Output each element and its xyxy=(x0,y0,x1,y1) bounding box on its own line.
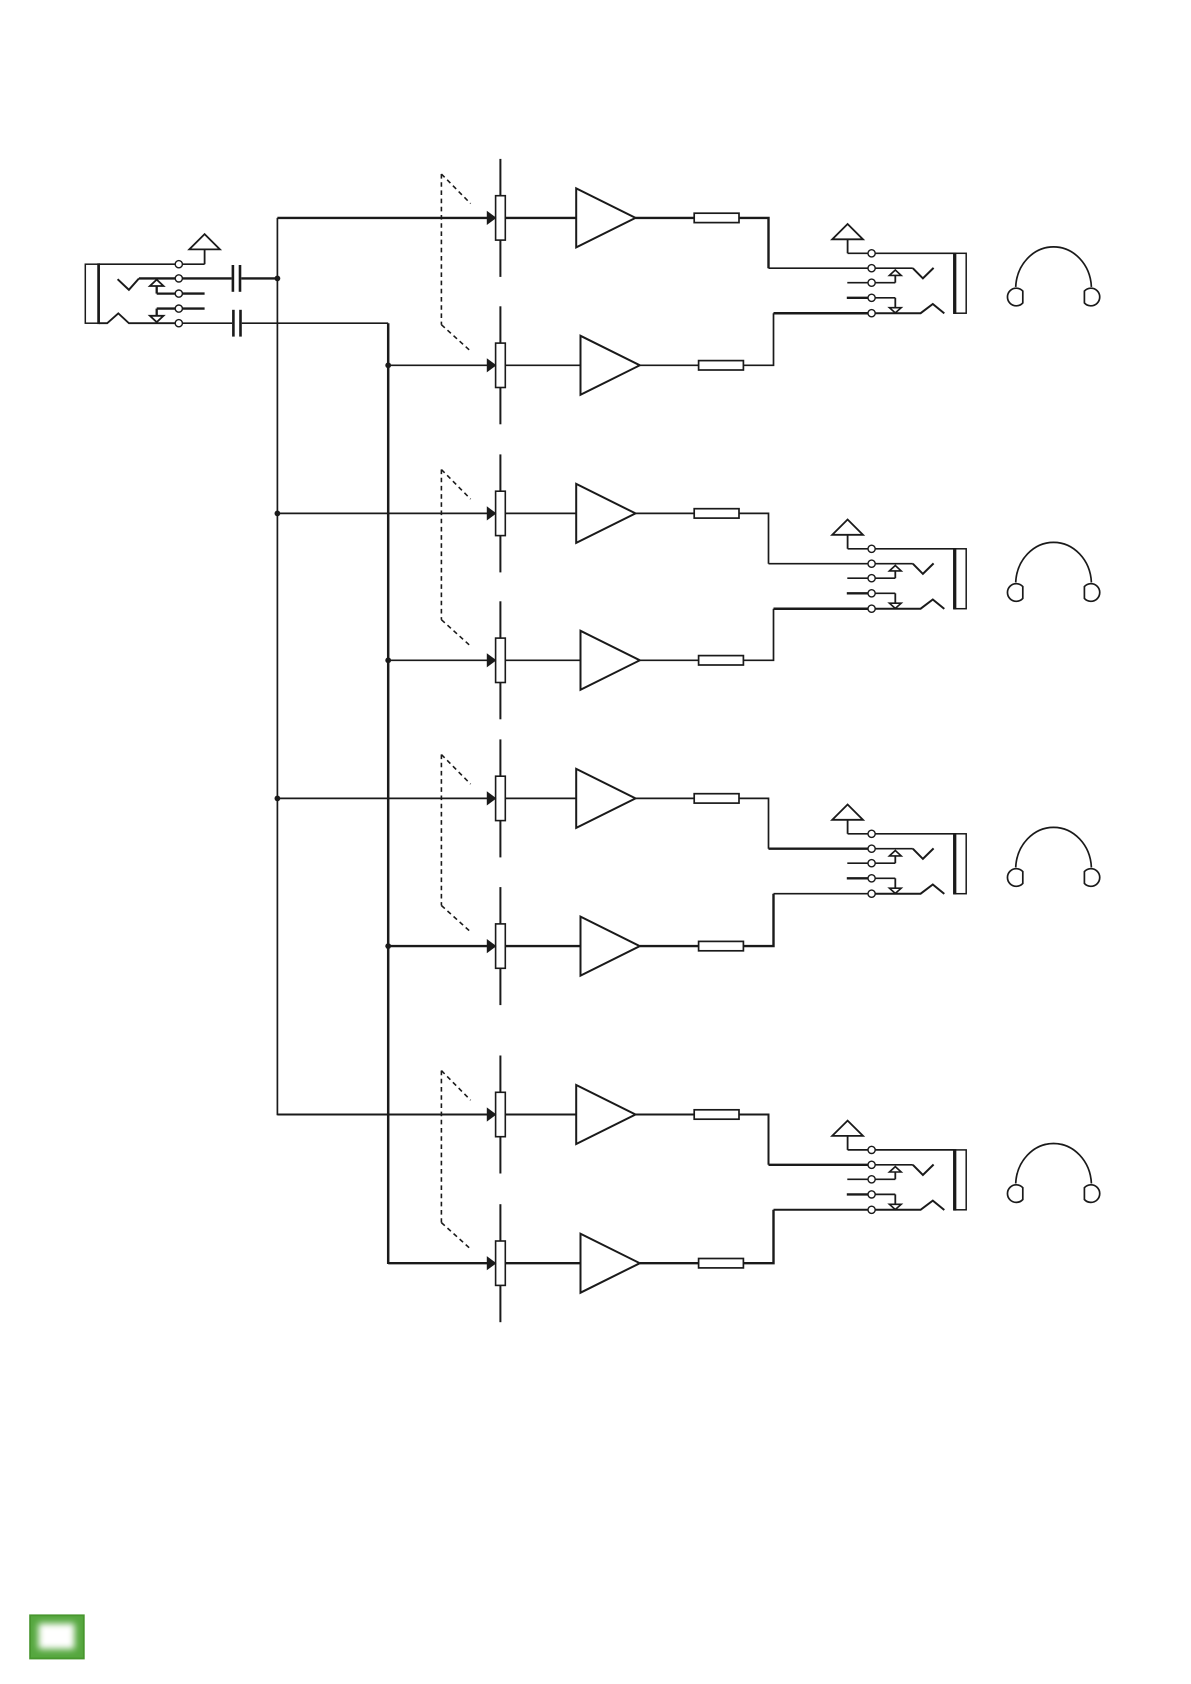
output jack J2 pin 4 (ring switch) xyxy=(868,294,875,301)
wire xyxy=(505,945,580,947)
gang link VR1 xyxy=(441,174,470,351)
output jack J2 tip contact xyxy=(913,268,934,279)
headphones CH2 xyxy=(1007,542,1099,601)
wire xyxy=(388,1262,487,1264)
potentiometer VR2b (R volume) xyxy=(487,601,505,719)
wire xyxy=(739,1115,769,1165)
wire xyxy=(505,797,576,799)
output jack J4 pin 4 (ring switch) xyxy=(868,875,875,882)
resistor R1b xyxy=(699,361,744,370)
potentiometer VR1a (L volume) xyxy=(487,159,505,277)
output jack J2 ring switch arrow xyxy=(875,298,901,313)
wire xyxy=(139,277,176,279)
resistor R2a xyxy=(694,509,739,518)
output jack J2 pin 5 (ring, R) xyxy=(868,310,875,317)
output jack J3 pin 5 (ring, R) xyxy=(868,605,875,612)
wire xyxy=(640,1262,699,1264)
node L input xyxy=(275,276,281,282)
wire xyxy=(739,513,769,563)
input jack J1 tip switch arrow xyxy=(150,280,164,294)
amplifier U2a xyxy=(576,484,635,543)
wire xyxy=(505,364,580,366)
wire xyxy=(277,512,487,514)
resistor R4a xyxy=(694,1110,739,1119)
wire xyxy=(847,1178,868,1180)
wire xyxy=(774,312,869,315)
wire xyxy=(774,1209,869,1211)
wire xyxy=(847,297,868,299)
wire xyxy=(848,252,869,254)
wire xyxy=(182,263,204,265)
output jack J3 pin 4 (ring switch) xyxy=(868,590,875,597)
wire xyxy=(875,1164,913,1166)
green navigation button xyxy=(30,1615,84,1658)
potentiometer VR4b (R volume) xyxy=(487,1204,505,1322)
output jack J5 ring switch arrow xyxy=(875,1194,901,1209)
output jack J5 pin 2 (tip, L) xyxy=(868,1161,875,1168)
output jack J3 body xyxy=(954,548,966,610)
wire xyxy=(636,797,695,799)
wire xyxy=(848,548,869,550)
resistor R3b xyxy=(699,941,744,950)
wire xyxy=(640,659,699,661)
output jack J4 pin 5 (ring, R) xyxy=(868,890,875,897)
potentiometer VR3a (L volume) xyxy=(487,739,505,857)
headphones CH3 xyxy=(1007,827,1099,886)
amplifier U1b xyxy=(581,336,640,395)
wire xyxy=(505,659,580,661)
wire xyxy=(769,1164,869,1166)
wire xyxy=(636,1114,695,1116)
wire xyxy=(769,848,869,850)
wire xyxy=(157,307,176,309)
resistor R3a xyxy=(694,794,739,803)
amplifier U2b xyxy=(581,631,640,690)
wire xyxy=(636,217,695,219)
potentiometer VR1b (R volume) xyxy=(487,306,505,424)
input jack J1 body xyxy=(85,263,99,324)
wire xyxy=(743,894,773,946)
wire xyxy=(743,1210,773,1263)
ground xyxy=(832,520,863,549)
output jack J5 pin 1 (sleeve) xyxy=(868,1146,875,1153)
amplifier U1a xyxy=(576,188,635,247)
wire xyxy=(847,592,868,594)
wire xyxy=(388,945,487,947)
wire xyxy=(182,322,232,324)
wire xyxy=(157,292,176,294)
output jack J3 pin 3 (tip switch) xyxy=(868,575,875,582)
input jack J1 ring switch arrow xyxy=(150,309,164,323)
wire xyxy=(241,277,277,279)
output jack J4 body xyxy=(954,833,966,895)
wire xyxy=(739,798,769,848)
wire xyxy=(743,313,773,365)
gang link VR4 xyxy=(441,1071,470,1249)
output jack J2 ring contact xyxy=(875,304,944,313)
resistor R4b xyxy=(699,1259,744,1268)
output jack J4 ring switch arrow xyxy=(875,878,901,893)
output jack J5 tip contact xyxy=(913,1165,934,1176)
wire xyxy=(277,217,487,219)
output jack J4 pin 2 (tip, L) xyxy=(868,845,875,852)
wire xyxy=(739,218,769,268)
node R ch2 tap xyxy=(385,657,391,663)
wire xyxy=(505,1262,580,1264)
output jack J2 pin 3 (tip switch) xyxy=(868,279,875,286)
node L ch2 tap xyxy=(275,511,281,517)
input jack J1 ring contact xyxy=(99,313,175,323)
output jack J2 body xyxy=(954,253,966,315)
wire R bus xyxy=(387,323,390,1264)
output jack J5 body xyxy=(954,1149,966,1211)
node L ch3 tap xyxy=(275,796,281,802)
output jack J5 pin 4 (ring switch) xyxy=(868,1191,875,1198)
wire xyxy=(640,364,699,366)
gang link VR2 xyxy=(441,470,470,647)
wire xyxy=(847,282,868,284)
ground xyxy=(832,224,863,253)
output jack J5 tip switch arrow xyxy=(875,1167,901,1180)
wire xyxy=(875,548,954,550)
output jack J3 ring switch arrow xyxy=(875,593,901,608)
wire xyxy=(769,563,869,565)
output jack J2 tip switch arrow xyxy=(875,270,901,283)
wire xyxy=(875,252,954,254)
output jack J4 tip switch arrow xyxy=(875,851,901,864)
output jack J5 pin 5 (ring, R) xyxy=(868,1206,875,1213)
wire xyxy=(847,577,868,579)
wire xyxy=(847,862,868,864)
wire xyxy=(99,263,175,265)
wire xyxy=(875,848,913,850)
resistor R2b xyxy=(699,656,744,665)
wire L bus xyxy=(276,218,278,1115)
headphones CH1 xyxy=(1007,247,1099,306)
wire xyxy=(640,945,699,947)
input jack J1 pin 2 (tip, L) xyxy=(175,275,182,282)
wire xyxy=(774,607,869,610)
amplifier U4b xyxy=(581,1234,640,1293)
amplifier U4a xyxy=(576,1085,635,1144)
amplifier U3a xyxy=(576,769,635,828)
output jack J4 pin 3 (tip switch) xyxy=(868,860,875,867)
wire xyxy=(847,877,868,879)
wire xyxy=(636,512,695,514)
wire xyxy=(277,797,487,799)
input jack J1 pin 1 (sleeve) xyxy=(175,261,182,268)
node R ch3 tap xyxy=(385,943,391,949)
wire xyxy=(242,322,388,324)
ground xyxy=(189,234,220,264)
wire xyxy=(505,1114,576,1116)
wire xyxy=(848,1149,869,1151)
wire xyxy=(388,659,487,661)
wire xyxy=(743,609,773,661)
output jack J5 pin 3 (tip switch) xyxy=(868,1176,875,1183)
wire xyxy=(848,833,869,835)
input jack J1 pin 3 (tip switch) xyxy=(175,290,182,297)
output jack J4 tip contact xyxy=(913,848,934,859)
wire xyxy=(875,1149,954,1151)
wire xyxy=(182,307,204,309)
capacitor C2 xyxy=(233,310,240,337)
input jack J1 pin 5 (ring, R) xyxy=(175,320,182,327)
output jack J3 pin 1 (sleeve) xyxy=(868,545,875,552)
amplifier U3b xyxy=(581,917,640,976)
wire xyxy=(505,512,576,514)
output jack J4 ring contact xyxy=(875,885,944,894)
wire xyxy=(388,364,487,366)
node R ch1 tap xyxy=(385,362,391,368)
input jack J1 tip contact xyxy=(118,279,139,290)
wire xyxy=(875,563,913,565)
output jack J3 ring contact xyxy=(875,600,944,609)
wire xyxy=(505,217,576,219)
capacitor C1 xyxy=(233,265,240,292)
wire xyxy=(769,267,869,269)
wire xyxy=(182,277,231,279)
wire xyxy=(277,1114,487,1116)
gang link VR3 xyxy=(441,755,470,932)
output jack J3 tip switch arrow xyxy=(875,566,901,579)
resistor R1a xyxy=(694,213,739,222)
ground xyxy=(832,805,863,834)
potentiometer VR2a (L volume) xyxy=(487,454,505,572)
ground xyxy=(832,1121,863,1150)
wire xyxy=(847,1193,868,1195)
wire xyxy=(182,292,204,294)
output jack J5 ring contact xyxy=(875,1201,944,1210)
wire xyxy=(875,267,913,269)
output jack J3 tip contact xyxy=(913,563,934,574)
input jack J1 pin 4 (ring switch) xyxy=(175,305,182,312)
wire xyxy=(774,893,869,895)
potentiometer VR3b (R volume) xyxy=(487,887,505,1005)
output jack J4 pin 1 (sleeve) xyxy=(868,830,875,837)
output jack J3 pin 2 (tip, L) xyxy=(868,560,875,567)
output jack J2 pin 2 (tip, L) xyxy=(868,265,875,272)
headphones CH4 xyxy=(1007,1143,1099,1202)
output jack J2 pin 1 (sleeve) xyxy=(868,250,875,257)
wire xyxy=(875,833,954,835)
potentiometer VR4a (L volume) xyxy=(487,1056,505,1174)
